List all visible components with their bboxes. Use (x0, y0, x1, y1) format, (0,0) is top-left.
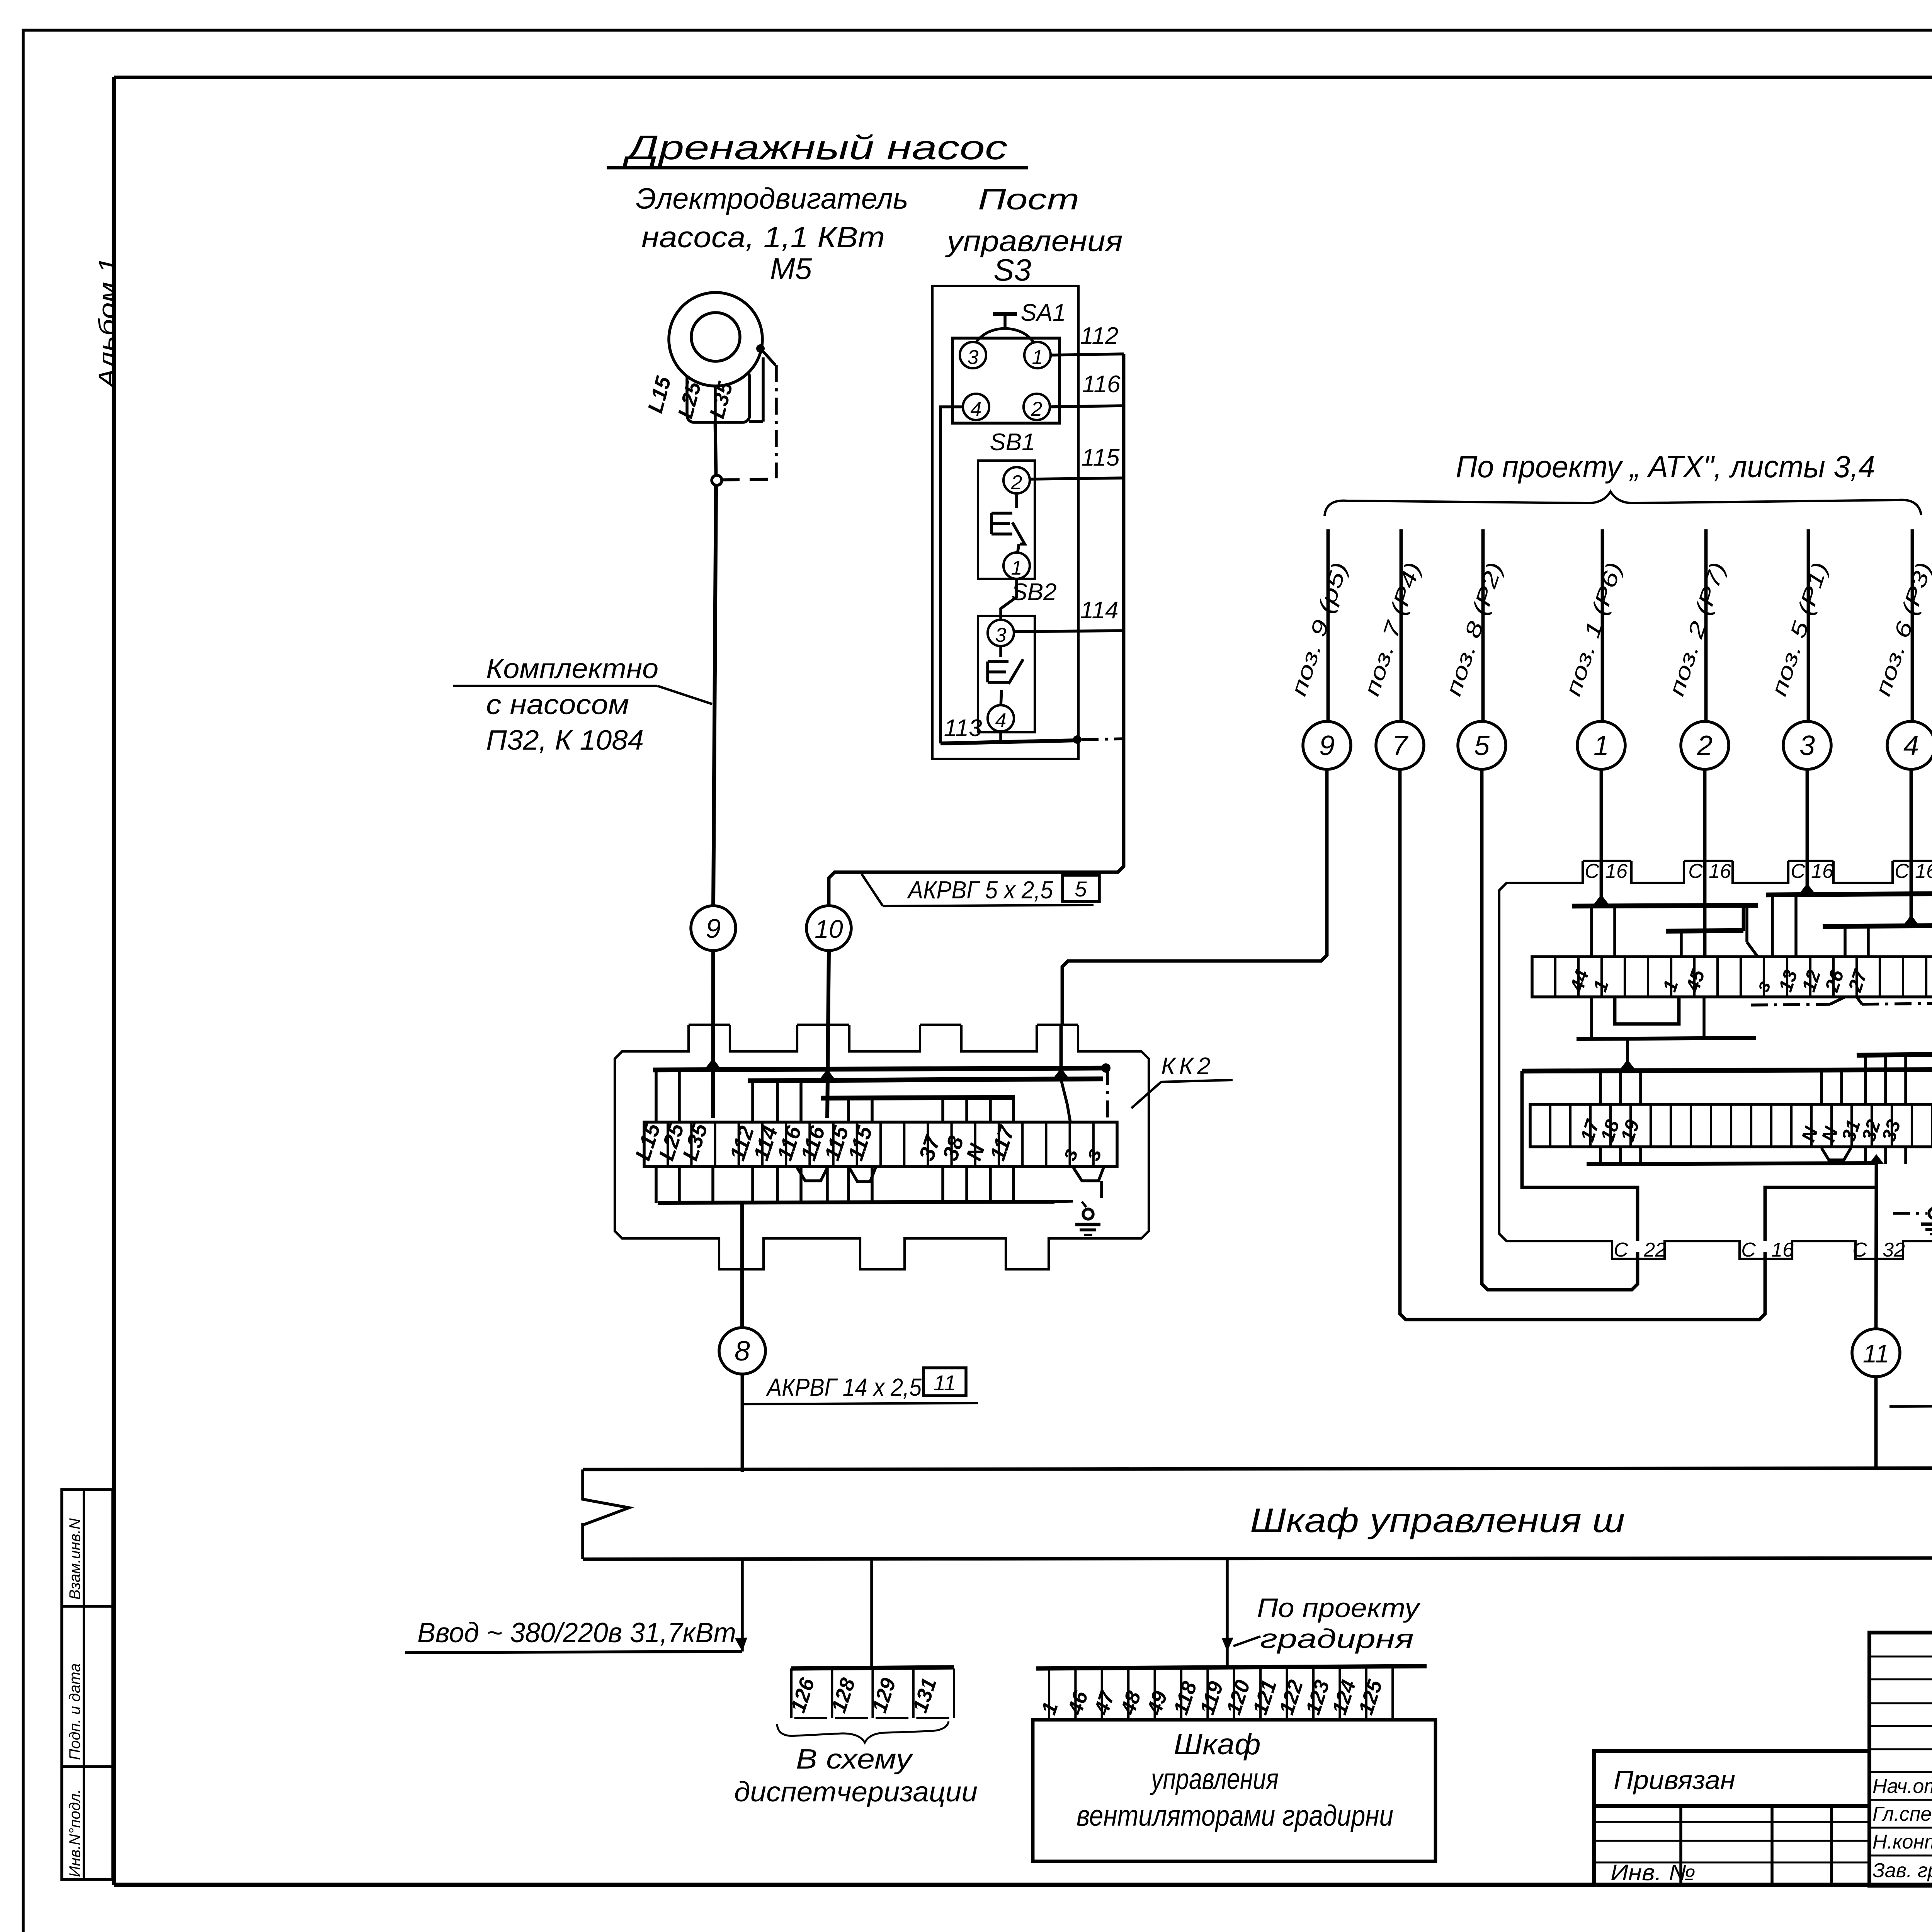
terminal box KC1 outline (1583, 860, 1631, 862)
wire poz5 to KC1 (1806, 769, 1809, 895)
SB1 contact symbol (990, 513, 993, 534)
cable label AKRVG 14x2,5 (741, 1374, 744, 1472)
motor M5 circle (669, 293, 762, 386)
node circle 2 (1681, 721, 1729, 769)
svg-text:С: С (1895, 860, 1909, 883)
wire поз. 8 (Р2) (1481, 529, 1485, 721)
svg-text:управления: управления (1150, 1763, 1279, 1796)
svg-text:SA1: SA1 (1020, 299, 1066, 326)
svg-text:Электродвигатель: Электродвигатель (636, 182, 908, 215)
wire from pin 4 (940, 407, 964, 743)
SA1 pin 2 (1024, 394, 1050, 420)
wire poz6 to KC1 (1910, 769, 1913, 927)
svg-text:11: 11 (1863, 1339, 1889, 1368)
svg-text:3: 3 (968, 346, 979, 369)
svg-text:3: 3 (995, 624, 1007, 646)
svg-text:Нач.отд.: Нач.отд. (1872, 1775, 1932, 1798)
left margin stamp column (62, 1490, 113, 1879)
poz9 wire into cell (1060, 1025, 1063, 1080)
wire poz2 to KC1 (1703, 769, 1707, 957)
node circle 5 (1458, 721, 1506, 769)
KC1 below upper strip (1590, 997, 1593, 1039)
clip under N/N (1821, 1148, 1851, 1160)
fans cabinet box (1033, 1720, 1435, 1861)
fans terminal strip (1036, 1666, 1427, 1668)
KK2 node circle 9 (691, 906, 736, 951)
svg-text:1: 1 (1011, 557, 1022, 579)
svg-text:4: 4 (971, 398, 982, 420)
svg-text:вентиляторами градирни: вентиляторами градирни (1077, 1799, 1393, 1832)
svg-text:116: 116 (1082, 371, 1121, 398)
svg-text:112: 112 (1080, 323, 1119, 349)
svg-text:10: 10 (815, 915, 843, 943)
brace (1325, 492, 1921, 516)
C22 internal wire (1522, 1071, 1638, 1241)
svg-text:Шкаф: Шкаф (1174, 1728, 1261, 1761)
svg-text:Дренажный насос: Дренажный насос (622, 128, 1007, 167)
wire poz1 to KC1 (1600, 769, 1603, 906)
wire поз. 2 (Р7) (1704, 529, 1708, 721)
SA1 pin 1 (1024, 342, 1051, 368)
svg-text:22: 22 (1643, 1239, 1666, 1261)
svg-text:С: С (1614, 1239, 1628, 1261)
svg-text:5: 5 (1474, 730, 1490, 761)
svg-text:16: 16 (1605, 860, 1628, 883)
svg-text:4: 4 (995, 709, 1007, 732)
svg-text:9: 9 (1319, 730, 1335, 761)
svg-text:16: 16 (1771, 1239, 1794, 1261)
cable wire from S3 down to circle 10 (829, 354, 1124, 906)
C32 wire down to circle 11 (1876, 1163, 1876, 1329)
wire poz7 down to C16 (1400, 769, 1765, 1320)
KK2 node circle 10 (806, 906, 851, 951)
svg-text:SB2: SB2 (1011, 579, 1056, 605)
svg-text:113: 113 (944, 715, 982, 742)
svg-text:Н.конт.: Н.конт. (1872, 1831, 1932, 1853)
node circle 9 (1303, 721, 1351, 769)
KK2 bus 1 (653, 1068, 1110, 1070)
svg-text:115: 115 (1082, 444, 1120, 471)
SA1 pin 3 (960, 342, 986, 368)
svg-text:SB1: SB1 (990, 429, 1035, 456)
svg-text:По проекту: По проекту (1257, 1593, 1421, 1623)
wire 114 (1013, 631, 1124, 632)
node circle 4 (1887, 721, 1932, 769)
svg-text:градирня: градирня (1260, 1624, 1414, 1654)
cable label AKRVG 19x2,5 (1874, 1377, 1878, 1468)
svg-text:1: 1 (1594, 730, 1609, 761)
svg-text:S3: S3 (993, 253, 1031, 287)
svg-text:2: 2 (1697, 730, 1713, 761)
svg-text:Пост: Пост (978, 183, 1079, 216)
leader line (453, 685, 657, 687)
wire поз. 6 (Р3) (1911, 529, 1914, 721)
KK2 bus 2 (748, 1079, 1103, 1081)
relay block KK2 outline (689, 1024, 730, 1026)
wire поз. 7 (Р4) (1400, 529, 1403, 721)
open junction circle (721, 479, 776, 480)
KK2 bus 3 (821, 1097, 1015, 1098)
wire 116 (1049, 406, 1124, 407)
svg-text:Подп. и дата: Подп. и дата (66, 1663, 83, 1760)
wire circle9 to bus (713, 951, 713, 1118)
dash-dot PE conductor from motor (775, 365, 778, 478)
clip under 116/116 (797, 1168, 827, 1181)
wire: motor down to circle 9 (713, 485, 716, 906)
svg-text:с насосом: с насосом (486, 689, 629, 720)
svg-text:Инв. №: Инв. № (1611, 1860, 1696, 1885)
svg-text:С: С (1688, 860, 1703, 883)
svg-text:7: 7 (1392, 730, 1409, 761)
svg-text:Комплектно: Комплектно (486, 653, 658, 684)
svg-text:М5: М5 (770, 252, 812, 286)
KC1 lower buses (1522, 1070, 1932, 1071)
KC1 upper strip (1532, 957, 1932, 997)
svg-text:16: 16 (1811, 860, 1833, 883)
wire поз. 1 (Р6) (1601, 529, 1604, 721)
bold wire to circle 8 (740, 1203, 744, 1328)
svg-text:Зав. гр.: Зав. гр. (1872, 1859, 1932, 1882)
KC1 lower strip (1530, 1104, 1932, 1147)
svg-text:1: 1 (1032, 346, 1043, 369)
dash-dot drops (1106, 1068, 1109, 1122)
clip under z/z (1073, 1168, 1104, 1181)
break zigzag (583, 1469, 629, 1559)
node circle 11 (1852, 1329, 1900, 1377)
motor right-side tap (756, 344, 765, 353)
wire circle10 to bus (827, 951, 829, 1118)
svg-text:Альбом 1: Альбом 1 (94, 257, 121, 390)
svg-text:АКРВГ 5 х 2,5: АКРВГ 5 х 2,5 (906, 876, 1053, 904)
node circle 8 (719, 1328, 765, 1374)
svg-text:32: 32 (1883, 1239, 1905, 1261)
wire поз. 9 (р5) (1327, 529, 1330, 721)
KC1 below lower strip (1599, 1147, 1602, 1164)
wire: motor to junction (715, 422, 716, 475)
svg-text:диспетчеризации: диспетчеризации (734, 1777, 978, 1808)
terminal box of motor (L15 L25 L35) (687, 370, 750, 422)
svg-text:П32, К 1084: П32, К 1084 (486, 725, 644, 756)
svg-text:С: С (1852, 1239, 1867, 1261)
SA1 key actuator (993, 312, 1017, 316)
KK2 stubs above strip (655, 1070, 658, 1122)
KC1 upper buses (1572, 905, 1758, 906)
KK2 terminal strip (644, 1122, 1117, 1167)
control post S3 box (932, 286, 1078, 759)
dash-dot link to cable (1082, 739, 1124, 740)
svg-text:3: 3 (1799, 730, 1815, 761)
KC1 ground (1893, 1212, 1927, 1215)
C16 internal wire (1765, 1187, 1875, 1241)
node circle 3 (1783, 721, 1831, 769)
svg-text:2: 2 (1031, 398, 1043, 420)
svg-text:С: С (1791, 860, 1805, 883)
wire SB1.1 to SB2.3 (1001, 578, 1017, 621)
wire poz9 to KK2 (1062, 769, 1327, 1025)
svg-text:С: С (1741, 1239, 1756, 1261)
wire poz8 down to C22 (1482, 769, 1638, 1290)
cabinet Shkaf upravleniya Sh (583, 1468, 1932, 1469)
svg-text:управления: управления (945, 225, 1123, 258)
svg-text:Привязан: Привязан (1614, 1765, 1735, 1795)
svg-text:Шкаф управления ш: Шкаф управления ш (1250, 1501, 1625, 1539)
svg-text:11: 11 (934, 1371, 956, 1395)
node circle 7 (1376, 721, 1424, 769)
KK2 bottom bus (658, 1202, 1054, 1203)
wire to dispatch strip (870, 1558, 873, 1668)
wire поз. 5 (Р1) (1807, 529, 1810, 721)
wire 115 (1029, 478, 1124, 479)
svg-text:16: 16 (1709, 860, 1731, 883)
wire 112 (1049, 354, 1124, 355)
node circle 1 (1577, 721, 1625, 769)
svg-text:По проекту „ АТХ", листы 3,4: По проекту „ АТХ", листы 3,4 (1456, 449, 1875, 484)
svg-text:4: 4 (1903, 730, 1919, 761)
svg-text:Инв.N°подл.: Инв.N°подл. (66, 1789, 83, 1877)
svg-text:9: 9 (706, 913, 721, 944)
svg-text:16: 16 (1915, 860, 1932, 883)
dispatch terminal strip (791, 1667, 954, 1668)
wire to fans cabinet (1226, 1558, 1229, 1668)
svg-text:5: 5 (1075, 877, 1087, 901)
SB2 contact symbol (986, 662, 989, 682)
dispatch brace (777, 1721, 949, 1743)
svg-text:Взам.инв.N: Взам.инв.N (66, 1518, 83, 1600)
KK2 ground (1083, 1209, 1093, 1219)
svg-text:насоса, 1,1 КВт: насоса, 1,1 КВт (641, 221, 885, 254)
svg-text:С: С (1585, 860, 1599, 883)
svg-text:КК2: КК2 (1161, 1053, 1214, 1080)
svg-text:АКРВГ 14 х 2,5: АКРВГ 14 х 2,5 (765, 1373, 922, 1401)
svg-text:Гл.спец.: Гл.спец. (1872, 1803, 1932, 1825)
svg-text:2: 2 (1011, 471, 1022, 494)
SA1 pin 4 (963, 394, 989, 420)
svg-text:114: 114 (1080, 597, 1119, 624)
clip under 115/115 (849, 1168, 876, 1182)
KK2 stubs below strip (655, 1167, 658, 1203)
svg-text:Ввод ~ 380/220в 31,7кВт: Ввод ~ 380/220в 31,7кВт (417, 1617, 736, 1648)
svg-text:8: 8 (735, 1336, 750, 1367)
svg-text:В схему: В схему (796, 1744, 914, 1775)
